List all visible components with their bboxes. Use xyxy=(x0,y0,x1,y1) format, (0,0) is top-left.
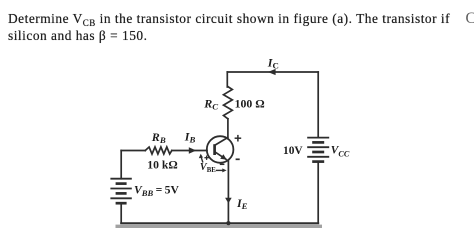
svg-text:100 Ω: 100 Ω xyxy=(235,97,265,111)
arrow VBE up xyxy=(199,154,203,163)
battery VBB xyxy=(110,179,131,204)
resistor RB xyxy=(145,147,172,154)
polarity minus emitter xyxy=(236,158,240,160)
svg-text:VBB = 5V: VBB = 5V xyxy=(134,184,179,199)
wire Vcc bottom stub xyxy=(317,162,319,224)
polarity minus VBE xyxy=(220,163,225,165)
wire base right segment xyxy=(172,150,207,152)
wire emitter drop xyxy=(227,161,229,224)
svg-text:IC: IC xyxy=(267,56,279,71)
wire Rc top stub xyxy=(226,72,228,87)
svg-text:VCC: VCC xyxy=(331,145,350,159)
current arrow IC xyxy=(268,69,276,75)
svg-text:RC: RC xyxy=(203,97,218,112)
wire top (collector to Vcc+) xyxy=(227,71,318,73)
battery VCC xyxy=(307,138,329,162)
junction node emitter-bottom xyxy=(226,221,230,225)
wire bottom xyxy=(121,222,318,224)
svg-text:10 kΩ: 10 kΩ xyxy=(147,159,177,172)
polarity plus collector xyxy=(235,135,242,142)
current arrow IB xyxy=(189,147,196,154)
svg-text:IB: IB xyxy=(184,130,196,145)
svg-text:VBE: VBE xyxy=(200,162,216,174)
resistor RC xyxy=(224,87,233,119)
current arrow IE xyxy=(225,198,232,204)
wire base left segment xyxy=(121,150,145,152)
wire battery VBB to bottom xyxy=(120,203,122,223)
arrow VBE right xyxy=(216,168,227,172)
svg-text:RB: RB xyxy=(151,130,166,145)
wire right riser top xyxy=(317,72,319,138)
polarity plus base xyxy=(204,156,208,160)
svg-text:10V: 10V xyxy=(283,145,303,157)
wire left riser xyxy=(120,151,122,179)
wire collector riser xyxy=(227,119,229,139)
transistor Q1 xyxy=(207,136,234,163)
svg-text:IE: IE xyxy=(236,196,248,211)
